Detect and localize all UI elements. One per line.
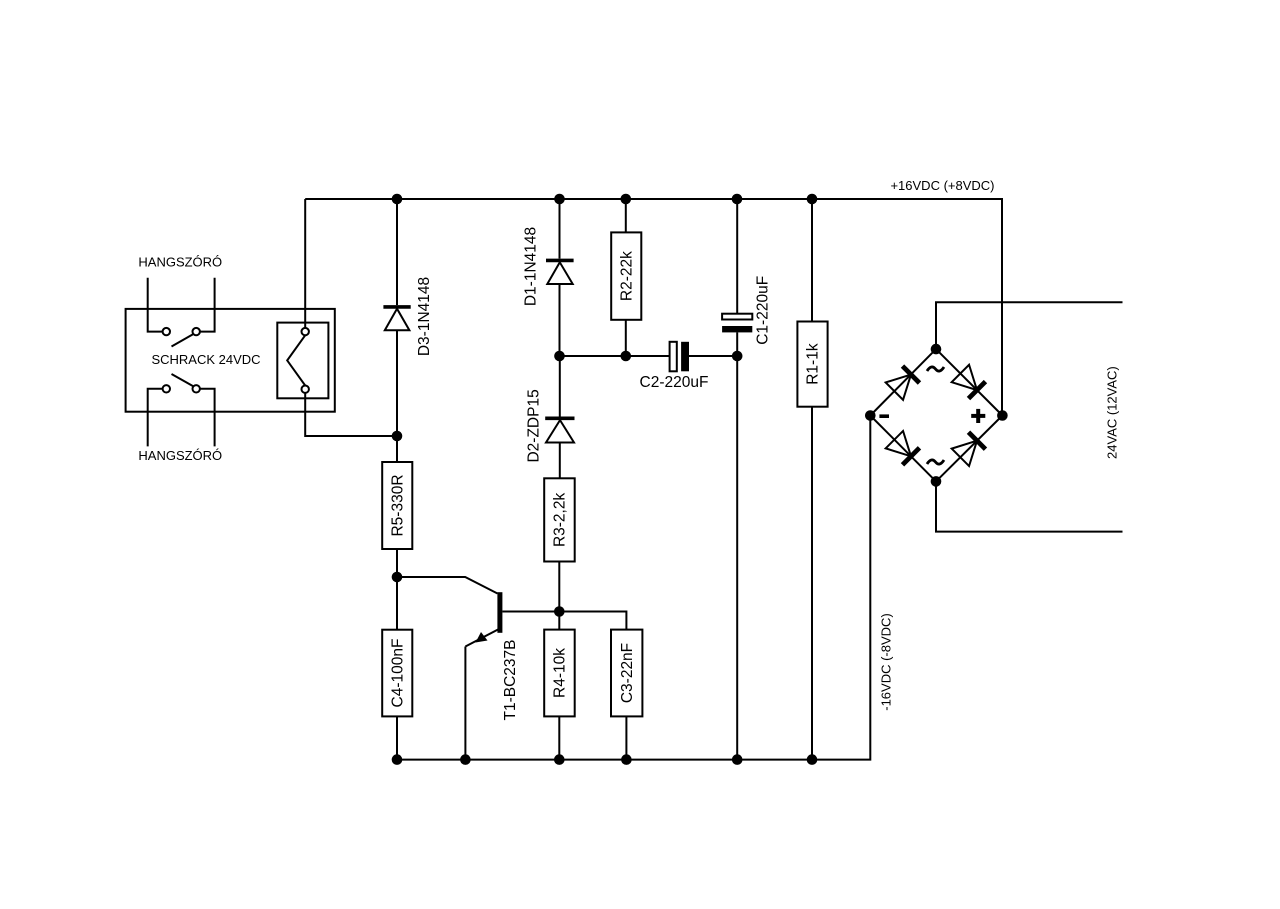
capacitor C2 left plate	[670, 342, 677, 372]
capacitor C3 body	[611, 630, 642, 717]
node rail R4	[554, 754, 565, 765]
svg-text:R4-10k: R4-10k	[552, 648, 569, 698]
diode D3 cathode bar	[383, 305, 410, 309]
node rail C1	[732, 754, 743, 765]
capacitor C1 wire top	[736, 199, 738, 314]
diode D3 wire bottom	[396, 330, 398, 436]
capacitor C4 wire bottom	[396, 716, 398, 759]
bridge AC symbol top	[927, 367, 944, 371]
wire C2 to C1 node	[689, 355, 737, 357]
relay coil inner box	[277, 323, 328, 399]
transistor T1 base bar	[497, 592, 502, 633]
svg-text:T1-BC237B: T1-BC237B	[502, 640, 519, 721]
node collector junction	[554, 606, 565, 617]
svg-text:SCHRACK 24VDC: SCHRACK 24VDC	[151, 352, 260, 367]
resistor R3 body	[544, 478, 575, 561]
resistor R2 wire top	[625, 199, 627, 232]
capacitor C1 wire bottom	[736, 332, 738, 759]
node rail emitter	[460, 754, 471, 765]
wire coil bottom to node A	[305, 393, 397, 436]
relay coil bottom pin	[302, 386, 309, 393]
resistor R5 wire bottom	[396, 549, 398, 577]
switch S1 left contact	[163, 328, 170, 335]
bridge edge bottom-right	[936, 416, 1002, 482]
wire relay coil feed vertical	[304, 199, 306, 328]
transistor T1 collector wire	[502, 611, 559, 613]
node base junction	[392, 572, 403, 583]
node rail C3	[621, 754, 632, 765]
svg-text:D3-1N4148: D3-1N4148	[416, 277, 433, 356]
switch S2 lever	[172, 374, 194, 386]
svg-text:D1-1N4148: D1-1N4148	[523, 227, 540, 306]
resistor R2 wire bottom	[625, 320, 627, 356]
node rail C4	[392, 754, 403, 765]
node bridge top	[931, 344, 942, 355]
node top rail / D1	[554, 194, 565, 205]
diode D1 cathode bar	[546, 259, 574, 263]
resistor R2 body	[611, 232, 641, 319]
bridge diode bottom-right	[952, 432, 986, 466]
diode D2 wire bottom	[559, 443, 561, 479]
resistor R5 wire top	[396, 436, 398, 462]
wire emitter to rail	[464, 647, 466, 760]
wire bottom speaker right lead	[200, 389, 215, 447]
svg-text:R2-22k: R2-22k	[618, 251, 635, 301]
node top rail / D3	[392, 194, 403, 205]
switch S1 right contact	[193, 328, 200, 335]
svg-text:24VAC (12VAC): 24VAC (12VAC)	[1105, 366, 1120, 459]
bridge diode top-right	[952, 365, 986, 399]
transistor T1 emitter	[465, 630, 498, 647]
relay K1 outer box	[126, 309, 335, 412]
bridge diode bottom-left	[886, 431, 920, 465]
bridge edge bottom-left	[870, 416, 936, 482]
wire mid horizontal left	[560, 355, 670, 357]
node top rail / R2	[621, 194, 632, 205]
capacitor C1 bottom plate	[722, 326, 752, 332]
wire top speaker right lead	[200, 278, 215, 332]
node bridge bottom	[931, 476, 942, 487]
node C1 mid	[732, 351, 743, 362]
svg-text:C3-22nF: C3-22nF	[619, 643, 636, 703]
switch S2 right contact	[193, 385, 200, 392]
resistor R3 wire bottom	[558, 562, 560, 630]
svg-text:HANGSZÓRÓ: HANGSZÓRÓ	[138, 448, 222, 463]
diode D3 wire top	[396, 199, 398, 305]
wire transistor base	[397, 577, 498, 594]
bridge diode top-left	[886, 366, 920, 400]
svg-text:C2-220uF: C2-220uF	[640, 374, 709, 391]
svg-text:+16VDC (+8VDC): +16VDC (+8VDC)	[890, 178, 994, 193]
diode D2 triangle	[546, 420, 574, 442]
wire top speaker left lead	[148, 278, 163, 332]
wire top rail +16VDC	[305, 199, 1002, 416]
node top rail / R1	[807, 194, 818, 205]
bridge plus symbol	[971, 409, 985, 423]
wire bottom rail	[397, 416, 871, 760]
bridge AC symbol bottom	[927, 460, 944, 464]
node R2 bottom	[621, 351, 632, 362]
svg-text:D2-ZDP15: D2-ZDP15	[526, 389, 543, 462]
node D1/D2/C2	[554, 351, 565, 362]
diode D1 triangle	[547, 262, 572, 284]
resistor R4 wire bottom	[558, 716, 560, 759]
svg-text:C1-220uF: C1-220uF	[754, 276, 771, 345]
relay coil top pin	[302, 328, 309, 335]
diode D1 wire bottom	[559, 284, 561, 356]
resistor R1 wire top	[811, 199, 813, 322]
node A below D3	[392, 431, 403, 442]
svg-text:R3-2,2k: R3-2,2k	[552, 493, 569, 548]
resistor R4 body	[544, 630, 575, 717]
resistor R1 wire bottom	[811, 407, 813, 760]
capacitor C4 body	[382, 630, 412, 717]
switch S2 left contact	[163, 385, 170, 392]
diode D2 cathode bar	[545, 416, 574, 420]
svg-text:R1-1k: R1-1k	[805, 343, 822, 385]
wire collector to C3	[559, 612, 626, 630]
capacitor C1 top plate	[722, 314, 752, 320]
wire bottom speaker left lead	[148, 389, 163, 447]
node bridge right	[997, 410, 1008, 421]
relay coil zigzag	[287, 335, 305, 385]
resistor R5 body	[382, 462, 412, 549]
diode D1 wire top	[559, 199, 561, 259]
diode D2 wire top	[559, 356, 561, 417]
node bridge left	[865, 410, 876, 421]
resistor R1 body	[797, 322, 827, 407]
node top rail / C1	[732, 194, 743, 205]
transistor T1 emitter arrow	[476, 632, 488, 643]
bridge edge top-right	[936, 349, 1002, 415]
switch S1 lever	[172, 334, 194, 346]
bridge minus symbol	[879, 414, 889, 418]
svg-text:-16VDC (-8VDC): -16VDC (-8VDC)	[879, 613, 894, 711]
wire bridge bottom AC lead	[936, 481, 1123, 531]
capacitor C4 wire top	[396, 577, 398, 630]
bridge edge top-left	[870, 349, 936, 415]
capacitor C2 right plate	[681, 342, 689, 372]
diode D3 triangle	[385, 309, 410, 331]
svg-text:HANGSZÓRÓ: HANGSZÓRÓ	[138, 255, 222, 270]
node rail R1	[807, 754, 818, 765]
svg-text:R5-330R: R5-330R	[389, 474, 406, 536]
svg-text:C4-100nF: C4-100nF	[389, 639, 406, 708]
wire bridge top AC lead	[936, 302, 1123, 349]
capacitor C3 wire bottom	[625, 716, 627, 759]
